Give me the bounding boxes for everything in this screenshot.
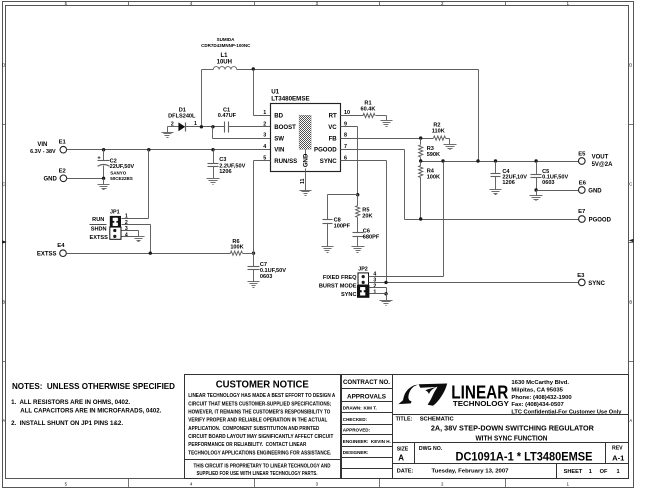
svg-text:TITLE:: TITLE: (396, 416, 413, 422)
svg-text:TECHNOLOGY APPLICATIONS ENGINE: TECHNOLOGY APPLICATIONS ENGINEERING FOR … (188, 450, 331, 456)
svg-text:D: D (629, 63, 632, 68)
svg-text:OF: OF (600, 469, 608, 475)
svg-text:2: 2 (125, 220, 128, 226)
svg-text:FIXED FREQ: FIXED FREQ (323, 275, 357, 281)
svg-text:Fax: (408)434-0507: Fax: (408)434-0507 (511, 402, 564, 408)
svg-text:JP2: JP2 (358, 266, 368, 272)
svg-text:1: 1 (194, 121, 197, 127)
svg-text:E7: E7 (578, 209, 586, 215)
svg-text:A-1: A-1 (612, 453, 625, 462)
svg-text:LT3480EMSE: LT3480EMSE (271, 96, 309, 103)
svg-text:DRAWN:: DRAWN: (343, 406, 362, 411)
svg-text:SYNC: SYNC (320, 158, 338, 165)
svg-text:10UH: 10UH (217, 59, 232, 65)
svg-text:REV: REV (612, 446, 623, 452)
svg-text:2: 2 (263, 121, 266, 127)
svg-text:VOUT: VOUT (592, 155, 609, 161)
svg-text:LINEAR: LINEAR (451, 382, 508, 402)
svg-text:SHDN: SHDN (91, 226, 107, 232)
svg-text:SW: SW (274, 135, 284, 142)
svg-text:HOWEVER, IT REMAINS THE CUSTOM: HOWEVER, IT REMAINS THE CUSTOMER’S RESPO… (188, 410, 331, 416)
svg-text:2: 2 (373, 284, 376, 290)
svg-text:VERIFY PROPER AND RELIABLE OPE: VERIFY PROPER AND RELIABLE OPERATION IN … (188, 418, 327, 424)
svg-text:KIM T.: KIM T. (364, 406, 377, 411)
svg-text:SYNC: SYNC (341, 292, 357, 298)
svg-text:E4: E4 (57, 243, 65, 249)
svg-text:DC1091A-1 * LT3480EMSE: DC1091A-1 * LT3480EMSE (456, 450, 593, 463)
svg-text:U1: U1 (271, 88, 279, 95)
svg-text:6.3V - 38V: 6.3V - 38V (30, 149, 56, 155)
svg-text:DWG NO.: DWG NO. (419, 446, 443, 452)
svg-text:680PF: 680PF (363, 234, 380, 240)
svg-text:3: 3 (125, 226, 128, 232)
svg-text:110K: 110K (432, 128, 445, 134)
svg-text:E1: E1 (59, 140, 67, 146)
svg-text:VIN: VIN (37, 142, 47, 148)
svg-text:0.47UF: 0.47UF (218, 113, 237, 119)
svg-text:100K: 100K (427, 174, 440, 180)
svg-text:7: 7 (344, 144, 347, 150)
svg-text:2: 2 (171, 121, 174, 127)
svg-text:PGOOD: PGOOD (314, 147, 337, 154)
svg-text:JP1: JP1 (110, 210, 120, 216)
svg-text:FB: FB (329, 135, 338, 142)
svg-text:THIS CIRCUIT IS PROPRIETARY TO: THIS CIRCUIT IS PROPRIETARY TO LINEAR TE… (194, 464, 331, 470)
svg-text:8: 8 (344, 133, 347, 139)
svg-text:WITH SYNC FUNCTION: WITH SYNC FUNCTION (476, 433, 548, 442)
svg-text:2A, 38V STEP-DOWN SWITCHING RE: 2A, 38V STEP-DOWN SWITCHING REGULATOR (431, 424, 595, 433)
svg-text:60.4K: 60.4K (361, 107, 376, 113)
svg-text:Milpitas, CA 95035: Milpitas, CA 95035 (511, 387, 563, 393)
svg-text:RUN: RUN (92, 217, 104, 223)
svg-text:GND: GND (303, 153, 310, 167)
svg-text:RUN/SS: RUN/SS (274, 158, 297, 165)
svg-text:C: C (629, 182, 632, 187)
svg-text:A: A (629, 418, 632, 423)
svg-text:APPLICATION. COMPONENT SUBSTI: APPLICATION. COMPONENT SUBSTITUTION AND … (188, 426, 319, 432)
svg-text:1206: 1206 (219, 169, 231, 175)
svg-text:DFLS240L: DFLS240L (168, 113, 196, 119)
svg-text:1630 McCarthy Blvd.: 1630 McCarthy Blvd. (511, 380, 569, 386)
svg-text:20K: 20K (362, 214, 372, 220)
svg-text:E5: E5 (578, 151, 586, 157)
svg-text:1: 1 (373, 290, 376, 296)
svg-text:B: B (629, 300, 632, 305)
svg-text:APPROVALS: APPROVALS (347, 393, 386, 400)
svg-text:D: D (2, 63, 5, 68)
svg-text:3: 3 (263, 133, 266, 139)
svg-text:SCHEMATIC: SCHEMATIC (420, 416, 455, 422)
svg-text:2. INSTALL SHUNT ON JP1 PINS: 2. INSTALL SHUNT ON JP1 PINS 1&2. (11, 420, 123, 427)
svg-text:SHEET: SHEET (564, 469, 583, 475)
svg-text:SUMIDA: SUMIDA (217, 37, 235, 42)
svg-text:PERFORMANCE OR RELIABILITY. C: PERFORMANCE OR RELIABILITY. CONTACT LINE… (188, 442, 306, 448)
svg-text:4: 4 (263, 144, 266, 150)
svg-text:TECHNOLOGY: TECHNOLOGY (453, 401, 509, 408)
svg-text:100PF: 100PF (334, 223, 351, 229)
svg-text:DESIGNER:: DESIGNER: (343, 450, 369, 455)
svg-text:A: A (2, 418, 5, 423)
svg-text:22UF,50V: 22UF,50V (110, 164, 135, 170)
svg-text:1: 1 (617, 469, 620, 475)
svg-text:50CE22BS: 50CE22BS (110, 176, 133, 181)
svg-text:C: C (2, 182, 5, 187)
svg-text:ENGINEER: KEVIN H.: ENGINEER: KEVIN H. (343, 439, 391, 444)
svg-text:GND: GND (44, 177, 58, 183)
svg-text:E3: E3 (577, 273, 585, 279)
svg-text:CIRCUIT THAT MEETS CUSTOMER-SU: CIRCUIT THAT MEETS CUSTOMER-SUPPLIED SPE… (188, 401, 331, 407)
svg-text:E2: E2 (59, 168, 67, 174)
svg-text:100K: 100K (230, 245, 243, 251)
svg-text:CDR7D43MNNP-100NC: CDR7D43MNNP-100NC (201, 43, 251, 48)
svg-text:CIRCUIT BOARD LAYOUT MAY SIGNI: CIRCUIT BOARD LAYOUT MAY SIGNIFICANTLY A… (188, 434, 333, 440)
svg-text:1: 1 (589, 469, 592, 475)
svg-text:1206: 1206 (502, 180, 514, 186)
svg-text:BOOST: BOOST (274, 124, 296, 131)
svg-text:0603: 0603 (260, 274, 272, 280)
svg-text:A: A (398, 453, 404, 462)
svg-text:C3: C3 (219, 157, 226, 163)
svg-text:5V@2A: 5V@2A (592, 162, 614, 168)
svg-text:E6: E6 (579, 180, 587, 186)
svg-text:VC: VC (328, 124, 337, 131)
svg-text:EXTSS: EXTSS (37, 252, 57, 258)
svg-text:RT: RT (329, 113, 337, 120)
svg-text:SIZE: SIZE (397, 446, 409, 452)
svg-text:SANYO: SANYO (110, 170, 127, 175)
svg-text:1. ALL RESISTORS ARE IN OHMS,: 1. ALL RESISTORS ARE IN OHMS, 0402. (11, 399, 130, 406)
svg-text:NOTES: UNLESS OTHERWISE SPECI: NOTES: UNLESS OTHERWISE SPECIFIED (12, 382, 175, 391)
svg-text:SYNC: SYNC (588, 281, 605, 287)
svg-text:ALL CAPACITORS ARE IN MICROFAR: ALL CAPACITORS ARE IN MICROFARADS, 0402. (20, 408, 161, 415)
svg-text:GND: GND (588, 188, 602, 194)
svg-text:Phone: (408)432-1900: Phone: (408)432-1900 (511, 395, 572, 401)
svg-text:LINEAR TECHNOLOGY HAS MADE A B: LINEAR TECHNOLOGY HAS MADE A BEST EFFORT… (188, 393, 335, 399)
svg-text:L1: L1 (220, 53, 228, 59)
svg-text:4: 4 (125, 232, 128, 238)
svg-text:590K: 590K (427, 152, 440, 158)
svg-text:CUSTOMER NOTICE: CUSTOMER NOTICE (216, 379, 309, 390)
svg-text:VIN: VIN (274, 147, 284, 154)
svg-text:EXTSS: EXTSS (90, 235, 109, 241)
svg-text:1: 1 (263, 110, 266, 116)
svg-text:Tuesday, February 13, 2007: Tuesday, February 13, 2007 (432, 469, 509, 475)
svg-text:CONTRACT NO.: CONTRACT NO. (343, 379, 390, 386)
svg-text:11: 11 (300, 178, 306, 184)
svg-text:SUPPLIED FOR USE WITH LINEAR T: SUPPLIED FOR USE WITH LINEAR TECHNOLOGY … (197, 471, 318, 477)
svg-text:DATE:: DATE: (397, 469, 414, 475)
svg-text:PGOOD: PGOOD (589, 217, 612, 223)
svg-text:APPROVED:: APPROVED: (343, 428, 371, 433)
svg-text:BURST MODE: BURST MODE (319, 283, 357, 289)
svg-text:B: B (2, 300, 5, 305)
svg-text:BD: BD (274, 113, 283, 120)
svg-text:0603: 0603 (542, 180, 554, 186)
svg-text:CHECKED:: CHECKED: (343, 417, 368, 422)
